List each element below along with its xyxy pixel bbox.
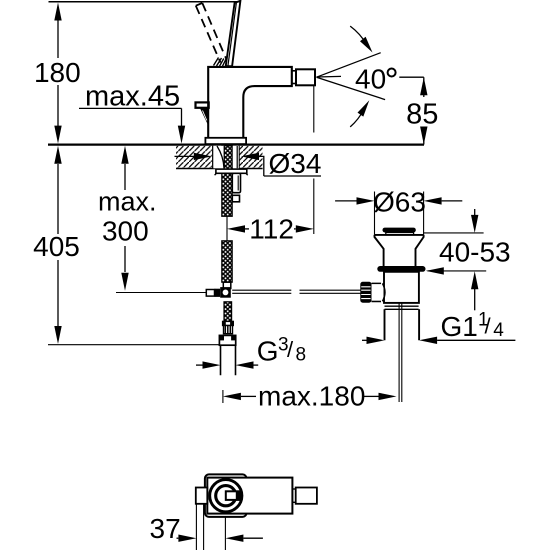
node bottom view neck	[292, 489, 295, 502]
node dim G3/8 left arrow	[196, 364, 203, 366]
node drain cap disc	[383, 228, 416, 233]
node pop-up rod wedge	[200, 108, 209, 126]
svg-text:max.: max.	[98, 187, 157, 217]
node dim Ø34 left arrow	[175, 155, 195, 157]
node spout neck	[292, 71, 296, 84]
node dim 40-53 bottom reference	[428, 270, 487, 272]
node hose neck	[223, 282, 231, 288]
node G3/8 hex nut	[219, 335, 235, 345]
node dim 180 bottom arrow	[54, 126, 61, 144]
wire lever inner line	[228, 3, 237, 66]
node countertop hatched section right	[239, 146, 262, 169]
node dim Ø34 right arrow	[241, 153, 259, 160]
wire deck underside line	[176, 168, 263, 170]
node knob connector	[372, 283, 382, 301]
svg-text:405: 405	[33, 231, 80, 262]
wire drain inner rod	[399, 303, 402, 402]
wire spray angle upper arc	[350, 26, 366, 44]
svg-text:max.45: max.45	[85, 80, 180, 112]
node drain gasket	[377, 266, 425, 272]
svg-text:300: 300	[102, 215, 149, 246]
wire dim max300 vertical line	[124, 164, 126, 272]
node lever handle dashed alternate position	[196, 3, 227, 63]
wire hose centerline	[226, 216, 228, 241]
wire dim 85 vertical line	[423, 77, 425, 144]
node dim 405 bottom arrow	[54, 326, 61, 344]
wire max300 bottom reference / rod left line	[116, 292, 206, 294]
node dim 180 top arrow	[54, 3, 61, 21]
node aerator outer circle	[210, 480, 242, 512]
svg-text:112: 112	[249, 214, 294, 245]
node faucet base plate	[205, 138, 246, 144]
wire spout tip extension line	[313, 86, 315, 235]
node faucet body outline	[208, 67, 292, 138]
wire 40deg to 85 dim connector	[399, 76, 424, 78]
node dim G1 1/4 left arrow	[362, 339, 367, 341]
node dim Ø63 left arrow	[335, 200, 356, 202]
node dim 85 top arrow	[420, 77, 427, 95]
wire max.45 leader underline	[79, 108, 182, 126]
wire pop-up rod horizontal left segment	[232, 290, 291, 293]
wire shank right line	[236, 146, 238, 168]
svg-text:G1: G1	[441, 311, 478, 342]
node dim max300 bottom arrow	[121, 273, 128, 291]
node aerator inner circle	[216, 486, 236, 506]
node dim Ø63 right arrow	[424, 197, 442, 204]
node drain body	[384, 272, 419, 303]
node flexible hose braid lower	[224, 302, 232, 322]
svg-text:/: /	[485, 314, 492, 339]
node bottom view right cap	[296, 488, 317, 504]
wire dim 37 extension lines	[196, 504, 225, 550]
svg-text:85: 85	[406, 99, 438, 131]
wire dim 180 vertical line	[57, 20, 59, 126]
svg-text:180: 180	[34, 57, 81, 88]
node flexible hose braid upper	[222, 241, 232, 282]
node max.45 arrow	[178, 126, 185, 144]
node upper arc arrowhead	[360, 37, 373, 53]
wire dim 405 vertical line	[57, 164, 59, 326]
node shank hole tube	[213, 146, 239, 169]
wire dim Ø63 extension lines	[375, 192, 424, 235]
node G3/8 threaded pipe	[221, 345, 236, 375]
wire drain groove band	[385, 306, 419, 309]
node aerator slot	[226, 491, 241, 500]
wire shank section curve	[217, 146, 224, 168]
node pop-up rod knob	[196, 102, 209, 107]
svg-text:4: 4	[493, 320, 504, 341]
node dim 37 left arrow	[177, 537, 179, 539]
node dim 112 right arrow	[294, 228, 296, 230]
svg-text:/: /	[287, 337, 294, 362]
node lever handle solid	[226, 1, 241, 66]
node spout end cap	[296, 69, 315, 85]
svg-text:40: 40	[355, 64, 386, 95]
node hose knurled nut	[224, 326, 233, 334]
node dim 37 right arrow	[225, 535, 243, 542]
wire dim 405 bottom reference line	[48, 344, 219, 346]
node dim max180 right arrow	[364, 395, 379, 397]
node rod coupling mid block	[215, 289, 221, 297]
wire spray fan middle line	[317, 75, 342, 78]
node rod coupling left cap	[206, 290, 214, 297]
svg-text:37: 37	[150, 513, 181, 544]
node shank tube walls	[213, 146, 224, 169]
node drain knurled knob	[360, 282, 371, 303]
node drain tailpipe G1 1/4	[385, 309, 420, 340]
node dim max180 left arrow	[223, 393, 241, 400]
svg-text:Ø63: Ø63	[373, 187, 426, 218]
node dim 85 bottom arrow	[420, 127, 427, 145]
node bottom view left tab	[196, 488, 208, 504]
svg-text:40-53: 40-53	[439, 237, 511, 268]
node dim 112 left arrow	[227, 225, 245, 232]
node dim G3/8 right arrow	[236, 361, 254, 368]
svg-text:max.180: max.180	[258, 381, 365, 412]
wire spray angle lower arc	[350, 110, 364, 127]
wire spray fan upper line	[317, 53, 381, 77]
node dim 40-53 top reference	[424, 232, 484, 234]
svg-text:8: 8	[296, 345, 307, 366]
wire Ø34 leader	[259, 156, 321, 176]
node bottom view housing	[205, 474, 247, 517]
node bottom view main body	[207, 478, 292, 514]
wire lever base hatch strokes	[214, 58, 227, 67]
wire spray fan lower line	[317, 77, 386, 99]
node rod coupling main block	[220, 287, 231, 298]
node deck mounting surface line	[48, 144, 424, 146]
node top reference line	[49, 1, 242, 3]
node dim 405 top arrow	[54, 146, 61, 164]
wire dashed lever top cap	[196, 3, 203, 6]
wire pop-up rod horizontal right segment	[300, 290, 361, 293]
node hose ferrule	[223, 321, 234, 325]
node drain flange	[375, 235, 424, 266]
node lower arc arrowhead	[358, 100, 370, 116]
svg-text:Ø34: Ø34	[269, 148, 322, 179]
node threaded shank braid	[222, 146, 232, 217]
svg-text:G: G	[257, 336, 279, 367]
node countertop hatched section left	[176, 146, 212, 169]
node mounting flange nut	[216, 169, 247, 173]
node fixing stud	[232, 173, 240, 192]
node dim G1 1/4 right arrow	[419, 337, 437, 344]
wire max180 left extension bar	[222, 390, 224, 403]
node dim max300 top arrow	[121, 146, 128, 164]
